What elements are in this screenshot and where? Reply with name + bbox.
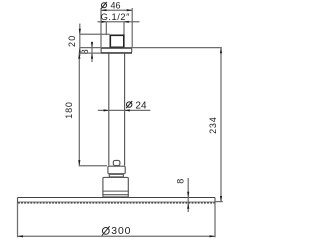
svg-text:180: 180 xyxy=(64,101,74,118)
svg-text:24: 24 xyxy=(135,101,147,112)
dim 20 extension line at square top xyxy=(80,33,110,35)
dim 20 line xyxy=(79,24,81,56)
dim 234 arrow bottom xyxy=(220,196,222,202)
dim Ø300 line xyxy=(18,235,216,237)
dim 8 (disk) arrow top xyxy=(187,192,189,198)
dim Ø46 arrow left xyxy=(101,9,107,11)
dim G.1/2 arrow left xyxy=(102,21,107,23)
disk right edge xyxy=(214,198,216,204)
dim Ø24 arrow right xyxy=(125,109,130,111)
dim Ø46 extension line left xyxy=(100,8,102,48)
pipe left edge xyxy=(108,53,110,165)
dim Ø24 leader line xyxy=(98,109,151,111)
ceiling line xyxy=(80,47,222,49)
dim 8 (disk) line xyxy=(187,178,189,212)
hose nipple tab xyxy=(113,160,120,165)
svg-text:234: 234 xyxy=(208,116,218,133)
ceiling flange xyxy=(101,48,132,52)
dim G.1/2 extension line left xyxy=(105,22,107,35)
shower head disk top xyxy=(18,197,216,199)
dim 180 bottom extension line xyxy=(79,165,107,167)
disk nozzle band xyxy=(18,201,215,203)
thread block G1/2 xyxy=(110,35,124,47)
drum divider line 1 xyxy=(102,190,128,192)
connector drum xyxy=(103,177,128,197)
dim Ø300 extension line left xyxy=(17,203,19,237)
pipe right edge xyxy=(124,53,126,165)
dim 180 line xyxy=(78,53,80,166)
svg-text:G.1/2″: G.1/2″ xyxy=(101,12,130,22)
dim Ø46 extension line right xyxy=(131,8,133,48)
svg-text:8: 8 xyxy=(175,179,185,184)
disk left edge xyxy=(17,198,19,204)
svg-text:300: 300 xyxy=(111,226,131,237)
dim 8 (flange) line xyxy=(91,42,93,62)
dim Ø24 arrow left xyxy=(104,109,109,111)
dim 20 arrow top xyxy=(79,29,81,35)
dim Ø46 arrow right xyxy=(127,9,133,11)
dim 8 arrow bottom xyxy=(91,53,93,59)
dim G.1/2 line xyxy=(98,21,140,23)
dim Ø24 label xyxy=(126,101,132,108)
flange bottom extension line xyxy=(79,52,101,54)
dim 234 extension line bottom xyxy=(215,201,223,203)
dim 234 line xyxy=(220,48,222,202)
svg-text:46: 46 xyxy=(111,1,121,11)
dim G.1/2 extension line right xyxy=(123,22,125,35)
dim 180 arrow top xyxy=(78,53,80,59)
dim Ø300 label xyxy=(102,226,110,235)
flange bottom accent xyxy=(101,52,133,54)
dim 8 (disk) arrow bottom xyxy=(187,203,189,209)
dim Ø300 arrow left xyxy=(18,235,24,237)
dim Ø300 arrow right xyxy=(210,235,216,237)
dim Ø300 extension line right xyxy=(214,203,216,237)
dim 20 arrow bottom xyxy=(79,48,81,54)
connector collar xyxy=(108,166,125,174)
svg-text:20: 20 xyxy=(67,34,77,47)
dim 234 arrow top xyxy=(220,48,222,54)
connector neck xyxy=(109,174,123,177)
dim 8 arrow top xyxy=(91,42,93,48)
dim 180 arrow bottom xyxy=(78,160,80,166)
drum divider line 2 xyxy=(102,194,128,196)
dim Ø46 label xyxy=(101,2,107,9)
dim G.1/2 arrow right xyxy=(124,21,129,23)
dim Ø46 line xyxy=(101,9,132,11)
